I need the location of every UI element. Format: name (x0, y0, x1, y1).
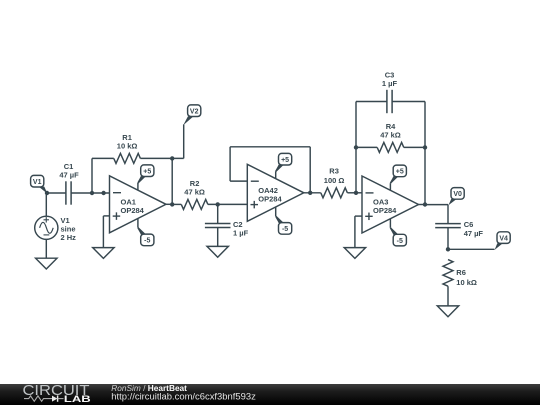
svg-text:47 kΩ: 47 kΩ (184, 188, 205, 197)
svg-text:47 µF: 47 µF (464, 229, 484, 238)
svg-text:+5: +5 (281, 157, 289, 164)
svg-text:-5: -5 (144, 238, 150, 245)
svg-text:+5: +5 (396, 169, 404, 176)
svg-text:V0: V0 (453, 191, 462, 198)
svg-text:OP284: OP284 (373, 206, 397, 215)
svg-text:10 kΩ: 10 kΩ (456, 278, 477, 287)
svg-text:100 Ω: 100 Ω (324, 176, 345, 185)
svg-text:V1: V1 (33, 179, 42, 186)
svg-text:-5: -5 (282, 226, 288, 233)
svg-text:LAB: LAB (64, 394, 91, 405)
svg-text:V4: V4 (499, 235, 508, 242)
svg-text:10 kΩ: 10 kΩ (117, 142, 138, 151)
svg-text:http://circuitlab.com/c6cxf3bn: http://circuitlab.com/c6cxf3bnf593z (111, 391, 256, 401)
svg-text:+5: +5 (143, 168, 151, 175)
svg-text:OP284: OP284 (258, 194, 282, 203)
svg-text:47 µF: 47 µF (59, 170, 79, 179)
svg-text:V2: V2 (190, 108, 199, 115)
svg-text:1 µF: 1 µF (233, 229, 249, 238)
svg-text:47 kΩ: 47 kΩ (380, 131, 401, 140)
svg-text:R3: R3 (329, 166, 339, 175)
svg-text:1 µF: 1 µF (382, 79, 398, 88)
svg-text:2 Hz: 2 Hz (61, 233, 77, 242)
svg-text:R6: R6 (456, 268, 466, 277)
svg-text:-5: -5 (397, 238, 403, 245)
svg-text:OP284: OP284 (121, 206, 145, 215)
